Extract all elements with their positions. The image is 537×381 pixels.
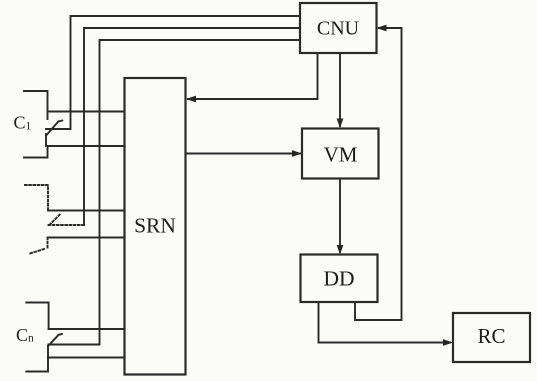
wire middle top to SRN xyxy=(48,210,125,212)
block VM xyxy=(302,129,379,179)
wire DD to CNU feedback xyxy=(355,25,402,320)
svg-text:C1: C1 xyxy=(14,112,32,132)
block DD xyxy=(301,255,378,303)
contact Cn xyxy=(26,303,62,372)
svg-text:Cn: Cn xyxy=(16,325,34,345)
wire CNU to SRN xyxy=(186,53,318,102)
wire CNU to C2 control xyxy=(84,28,300,225)
svg-text:VM: VM xyxy=(324,143,358,167)
block CNU xyxy=(300,3,377,53)
wire Cn top to SRN xyxy=(49,328,125,330)
wire CNU to C1 control xyxy=(46,16,300,129)
wire VM to DD xyxy=(337,179,344,255)
block RC xyxy=(453,313,530,362)
wire middle bottom to SRN xyxy=(48,237,125,239)
svg-text:DD: DD xyxy=(323,267,354,291)
svg-text:RC: RC xyxy=(477,324,505,348)
wire DD to RC xyxy=(319,302,454,346)
svg-text:SRN: SRN xyxy=(134,214,176,238)
contact C1 xyxy=(24,91,62,158)
wire C1 bottom to SRN xyxy=(48,145,125,147)
block SRN xyxy=(125,78,186,375)
wire SRN to VM xyxy=(186,150,303,157)
wire C1 top to SRN xyxy=(48,111,125,113)
wire Cn bottom to SRN xyxy=(49,357,125,359)
contact C2..Cn-1 dashed xyxy=(25,185,84,254)
wire CNU to VM xyxy=(337,53,344,128)
svg-text:CNU: CNU xyxy=(317,18,360,40)
wire CNU to Cn control xyxy=(49,40,300,345)
